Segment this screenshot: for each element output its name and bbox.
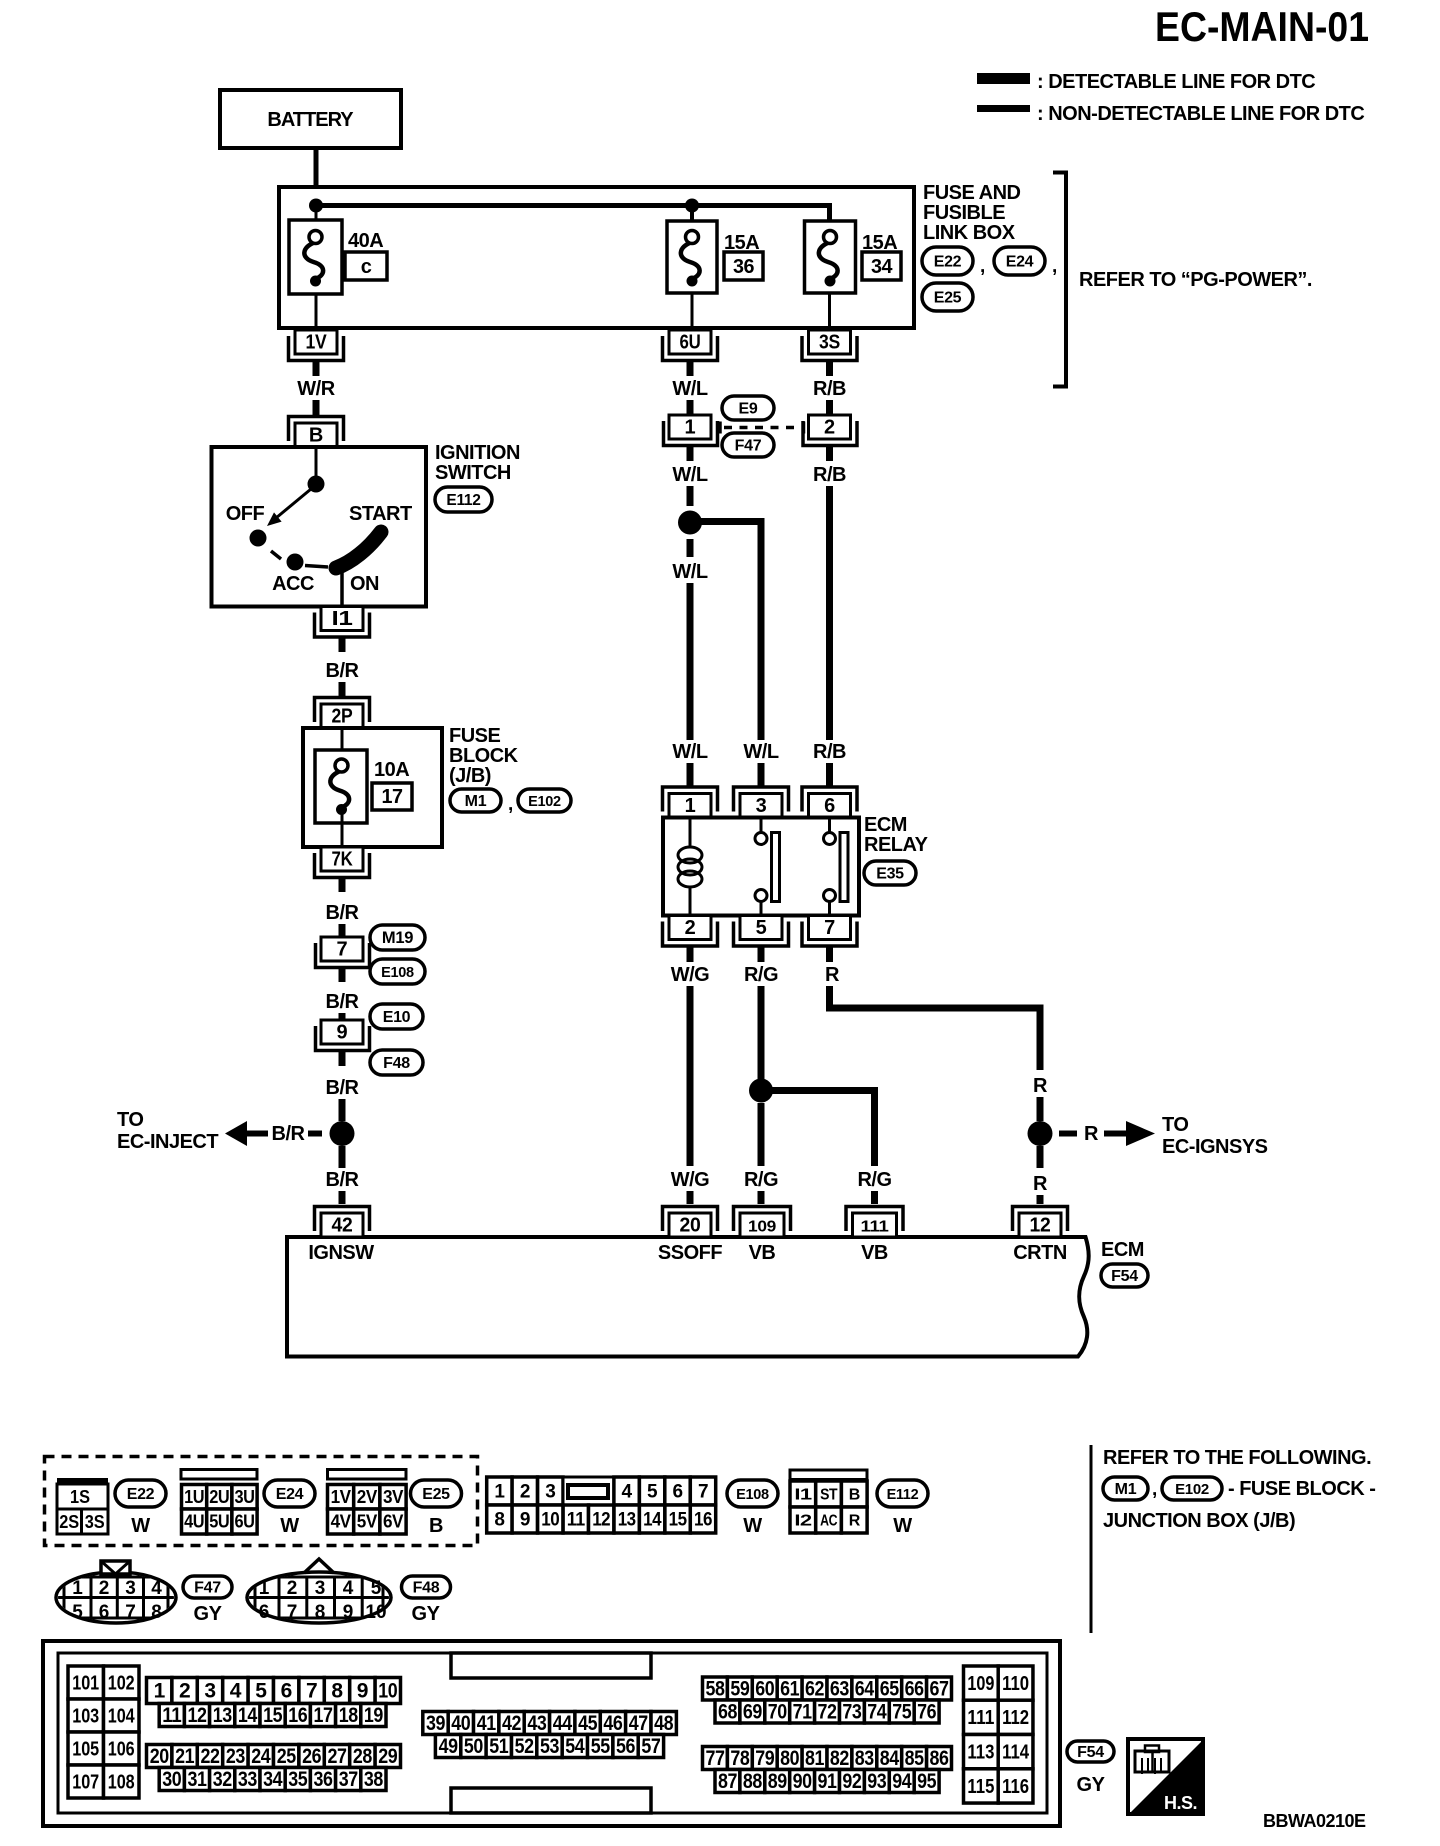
svg-text:ON: ON bbox=[350, 573, 379, 595]
svg-text:B/R: B/R bbox=[326, 991, 360, 1013]
svg-text:72: 72 bbox=[818, 1701, 837, 1724]
branch wire to relay pin 3 bbox=[696, 522, 761, 741]
svg-text:20: 20 bbox=[680, 1215, 701, 1237]
svg-text:62: 62 bbox=[805, 1678, 824, 1701]
svg-text:82: 82 bbox=[830, 1747, 849, 1770]
svg-text:B: B bbox=[849, 1487, 860, 1504]
connector face E112 bbox=[790, 1470, 867, 1480]
svg-text:57: 57 bbox=[641, 1735, 660, 1758]
junction W/L branch bbox=[678, 511, 702, 535]
svg-text:49: 49 bbox=[439, 1735, 458, 1758]
wire W/L to connector 1 bbox=[687, 400, 694, 415]
svg-text:55: 55 bbox=[591, 1735, 611, 1758]
svg-text:W/L: W/L bbox=[672, 378, 707, 400]
fuse and fusible link box outline bbox=[279, 187, 914, 328]
branch wire R/G to terminal 111 bbox=[767, 1091, 875, 1167]
svg-text:40: 40 bbox=[451, 1712, 470, 1735]
connector terminal 7K bbox=[315, 847, 370, 878]
svg-text:6: 6 bbox=[672, 1482, 682, 1503]
wire R/G below junction bbox=[758, 1103, 765, 1166]
svg-text:E24: E24 bbox=[276, 1486, 304, 1503]
svg-text:E112: E112 bbox=[887, 1487, 919, 1503]
svg-text:- FUSE BLOCK -: - FUSE BLOCK - bbox=[1228, 1478, 1375, 1500]
svg-text:86: 86 bbox=[930, 1747, 949, 1770]
svg-text:W: W bbox=[280, 1515, 299, 1537]
svg-text:26: 26 bbox=[302, 1745, 321, 1768]
svg-text:91: 91 bbox=[818, 1770, 838, 1793]
relay contact pins 3-5 bbox=[755, 818, 780, 916]
svg-text:R/G: R/G bbox=[857, 1169, 891, 1191]
svg-text:44: 44 bbox=[553, 1712, 573, 1735]
value box 36 bbox=[724, 252, 763, 280]
wire 2P to fuse 10A bbox=[341, 728, 344, 765]
connector face E25 bbox=[328, 1470, 407, 1480]
svg-text:71: 71 bbox=[793, 1701, 813, 1724]
svg-text:103: 103 bbox=[72, 1706, 99, 1728]
wire W/L to relay pin 1 bbox=[687, 583, 694, 740]
svg-text:27: 27 bbox=[328, 1745, 347, 1768]
svg-text:1U: 1U bbox=[184, 1487, 204, 1507]
svg-text:3V: 3V bbox=[383, 1487, 403, 1507]
connector terminal B (ignition switch) bbox=[289, 417, 344, 448]
svg-text:52: 52 bbox=[515, 1735, 534, 1758]
svg-text:105: 105 bbox=[72, 1739, 99, 1761]
svg-text:9: 9 bbox=[343, 1602, 354, 1623]
ECM pins 58-67 bbox=[703, 1677, 952, 1701]
value box 17 bbox=[372, 783, 412, 810]
wire B/R to connector 9 bbox=[339, 1013, 346, 1020]
svg-text:VB: VB bbox=[749, 1242, 776, 1264]
svg-text:53: 53 bbox=[540, 1735, 559, 1758]
svg-text:29: 29 bbox=[378, 1745, 397, 1768]
svg-text:10: 10 bbox=[541, 1510, 559, 1531]
svg-text:47: 47 bbox=[629, 1712, 648, 1735]
ECM terminal 109 bbox=[734, 1207, 791, 1238]
wire stub below 1V bbox=[313, 362, 320, 377]
svg-text:3: 3 bbox=[125, 1578, 136, 1599]
wire B/R to connector 2P bbox=[339, 682, 346, 697]
ECM box bbox=[287, 1237, 1089, 1357]
ECM pins 87-95 bbox=[715, 1770, 939, 1794]
wire R/G down bbox=[758, 986, 765, 1080]
wire W/G to terminal 20 bbox=[687, 1191, 694, 1204]
connector ref E35 bbox=[864, 861, 916, 885]
svg-text:1S: 1S bbox=[70, 1487, 90, 1507]
svg-text:36: 36 bbox=[314, 1768, 333, 1791]
wire R jog right bbox=[830, 986, 1041, 1070]
svg-text:87: 87 bbox=[718, 1770, 737, 1793]
wire stub below 7K bbox=[339, 879, 346, 893]
svg-text:E22: E22 bbox=[127, 1486, 155, 1503]
wire stub below connector 9 bbox=[339, 1052, 346, 1067]
svg-text:111: 111 bbox=[967, 1707, 994, 1729]
svg-text:42: 42 bbox=[502, 1712, 521, 1735]
svg-text:109: 109 bbox=[748, 1219, 776, 1236]
ECM pins 1-10 bbox=[147, 1678, 401, 1704]
svg-text:24: 24 bbox=[251, 1745, 271, 1768]
svg-text:6V: 6V bbox=[383, 1512, 403, 1532]
svg-text:18: 18 bbox=[339, 1704, 359, 1727]
svg-text:1: 1 bbox=[259, 1578, 270, 1599]
svg-text:73: 73 bbox=[842, 1701, 861, 1724]
svg-text:107: 107 bbox=[72, 1772, 99, 1794]
svg-text:START: START bbox=[349, 503, 412, 525]
svg-text:9: 9 bbox=[357, 1680, 368, 1703]
svg-text:R/B: R/B bbox=[813, 464, 846, 486]
svg-text:14: 14 bbox=[238, 1704, 258, 1727]
svg-text:9: 9 bbox=[336, 1022, 347, 1044]
label FUSE BLOCK (J/B) bbox=[449, 725, 519, 787]
dashed arc OFF to ACC bbox=[271, 551, 281, 559]
battery box bbox=[220, 90, 401, 148]
ECM pins 39-48 bbox=[423, 1712, 677, 1736]
wire stub below relay pin 7 bbox=[826, 947, 833, 962]
svg-text:3U: 3U bbox=[235, 1487, 255, 1507]
svg-text:W/L: W/L bbox=[672, 464, 707, 486]
svg-text:64: 64 bbox=[855, 1678, 875, 1701]
svg-text:33: 33 bbox=[238, 1768, 257, 1791]
top alignment notch bbox=[451, 1653, 651, 1678]
connector terminal 2P bbox=[315, 698, 370, 729]
svg-text:F54: F54 bbox=[1077, 1744, 1104, 1761]
connector ref E25 bbox=[922, 283, 973, 311]
wire stub above relay pin 1 bbox=[687, 763, 694, 787]
connector 1 (E9/F47) bbox=[664, 415, 718, 446]
svg-text:7: 7 bbox=[125, 1602, 136, 1623]
fusible link 40A box bbox=[289, 220, 342, 294]
svg-text:IGNSW: IGNSW bbox=[308, 1242, 374, 1264]
svg-text:5: 5 bbox=[255, 1680, 267, 1703]
svg-text:EC-IGNSYS: EC-IGNSYS bbox=[1162, 1136, 1268, 1158]
svg-text:11: 11 bbox=[567, 1510, 586, 1531]
svg-text:37: 37 bbox=[339, 1768, 358, 1791]
wire through fusible link 40A bbox=[315, 208, 318, 332]
svg-text:8: 8 bbox=[151, 1602, 162, 1623]
svg-text:IGNITION: IGNITION bbox=[435, 442, 520, 464]
svg-text:13: 13 bbox=[213, 1704, 232, 1727]
connector ref M19 bbox=[370, 925, 425, 950]
ECM connector pinout inner box bbox=[58, 1653, 1047, 1813]
svg-text:B: B bbox=[309, 425, 323, 447]
ECM terminal 20 bbox=[663, 1207, 718, 1238]
svg-text:51: 51 bbox=[489, 1735, 509, 1758]
connector 2 (E9/F47) bbox=[803, 415, 857, 446]
svg-text:B/R: B/R bbox=[272, 1123, 306, 1145]
relay terminal 3 bbox=[734, 787, 789, 818]
svg-text:3: 3 bbox=[756, 795, 767, 817]
svg-text:OFF: OFF bbox=[226, 503, 265, 525]
svg-text:2U: 2U bbox=[209, 1487, 229, 1507]
svg-text:4U: 4U bbox=[184, 1512, 204, 1532]
svg-text:109: 109 bbox=[967, 1673, 994, 1695]
fusible link 40A symbol bbox=[304, 231, 323, 287]
switch pivot contact bbox=[308, 476, 325, 493]
svg-text:6: 6 bbox=[824, 795, 835, 817]
ECM pins 30-38 bbox=[159, 1768, 386, 1792]
svg-text:12: 12 bbox=[1030, 1215, 1051, 1237]
wire battery to fuse box bus bbox=[314, 148, 319, 207]
svg-text:GY: GY bbox=[1077, 1774, 1106, 1796]
wire R/B to connector 2 bbox=[826, 400, 833, 415]
svg-text:48: 48 bbox=[654, 1712, 674, 1735]
svg-text:80: 80 bbox=[780, 1747, 799, 1770]
svg-text:90: 90 bbox=[793, 1770, 812, 1793]
switch rotor arrow to OFF bbox=[267, 489, 311, 526]
arrow to EC-INJECT bbox=[225, 1121, 268, 1146]
junction bus at fuse 36 tap bbox=[685, 199, 699, 213]
svg-text:54: 54 bbox=[565, 1735, 585, 1758]
svg-text:68: 68 bbox=[718, 1701, 738, 1724]
connector ref E22 (face) bbox=[115, 1480, 166, 1507]
H.S. logo bbox=[1128, 1739, 1203, 1814]
svg-text:: NON-DETECTABLE LINE FOR DTC: : NON-DETECTABLE LINE FOR DTC bbox=[1037, 103, 1364, 125]
junction R/G branch bbox=[749, 1079, 773, 1103]
svg-text:VB: VB bbox=[861, 1242, 888, 1264]
svg-text:: DETECTABLE LINE FOR DTC: : DETECTABLE LINE FOR DTC bbox=[1037, 71, 1315, 93]
wire stub below relay pin 5 bbox=[758, 947, 765, 962]
svg-text:E22: E22 bbox=[934, 254, 962, 271]
svg-text:JUNCTION BOX (J/B): JUNCTION BOX (J/B) bbox=[1103, 1510, 1295, 1532]
wire through fuse 34 bbox=[828, 222, 831, 332]
connector ref F54 (pinout) bbox=[1067, 1741, 1114, 1762]
svg-text:3S: 3S bbox=[819, 332, 840, 354]
wire fuse 10A to 7K bbox=[341, 812, 344, 847]
ECM pins 101-108 bbox=[68, 1666, 139, 1798]
wire stub below relay pin 2 bbox=[687, 947, 694, 962]
ECM pins 109-116 bbox=[964, 1666, 1033, 1803]
connector ref M1 bbox=[450, 789, 501, 812]
svg-text:SWITCH: SWITCH bbox=[435, 462, 511, 484]
svg-text:7: 7 bbox=[287, 1602, 298, 1623]
svg-text:8: 8 bbox=[315, 1602, 326, 1623]
svg-text:REFER TO THE FOLLOWING.: REFER TO THE FOLLOWING. bbox=[1103, 1447, 1371, 1469]
ECM pins 11-19 bbox=[159, 1704, 386, 1728]
svg-text:78: 78 bbox=[730, 1747, 750, 1770]
connector ref E108 bbox=[370, 959, 425, 984]
svg-text:4: 4 bbox=[343, 1578, 354, 1599]
svg-text:E108: E108 bbox=[381, 965, 414, 981]
connector ref E22 bbox=[922, 247, 973, 275]
wire R to terminal 12 bbox=[1037, 1195, 1044, 1204]
wire stub below 3S bbox=[826, 362, 833, 377]
svg-text:108: 108 bbox=[108, 1772, 135, 1794]
wire R/B to relay pin 6 bbox=[826, 486, 833, 740]
svg-text:SSOFF: SSOFF bbox=[658, 1242, 722, 1264]
svg-text:FUSIBLE: FUSIBLE bbox=[923, 202, 1005, 224]
svg-text:7: 7 bbox=[336, 939, 347, 961]
value box 34 bbox=[862, 252, 901, 280]
svg-text:84: 84 bbox=[880, 1747, 900, 1770]
svg-text:75: 75 bbox=[892, 1701, 912, 1724]
svg-text:70: 70 bbox=[768, 1701, 787, 1724]
svg-text:2: 2 bbox=[520, 1482, 530, 1503]
svg-text:5: 5 bbox=[647, 1482, 658, 1503]
connector face E22 bbox=[57, 1478, 108, 1534]
connector ref E108 (face) bbox=[727, 1480, 778, 1507]
svg-text:REFER TO “PG-POWER”.: REFER TO “PG-POWER”. bbox=[1079, 269, 1312, 291]
svg-text:M1: M1 bbox=[1115, 1481, 1137, 1498]
fuse block (J/B) box bbox=[303, 728, 442, 847]
svg-text:94: 94 bbox=[892, 1770, 912, 1793]
svg-text:31: 31 bbox=[188, 1768, 208, 1791]
svg-text:BBWA0210E: BBWA0210E bbox=[1263, 1811, 1366, 1831]
connector 7 (M19/E108) bbox=[316, 937, 370, 968]
fuse 15A 34 box bbox=[805, 221, 856, 293]
wire R to junction bbox=[1037, 1097, 1044, 1121]
svg-text:E25: E25 bbox=[422, 1486, 450, 1503]
svg-text:R/G: R/G bbox=[744, 1169, 778, 1191]
svg-text:3: 3 bbox=[204, 1680, 215, 1703]
svg-text:34: 34 bbox=[263, 1768, 283, 1791]
connector terminal 3S bbox=[802, 330, 857, 361]
svg-text:20: 20 bbox=[150, 1745, 169, 1768]
svg-text:F54: F54 bbox=[1111, 1268, 1138, 1285]
dashed arc ACC to ON bbox=[305, 566, 328, 568]
connector face E108 16-pin bbox=[487, 1477, 563, 1505]
svg-text:3S: 3S bbox=[85, 1512, 105, 1532]
svg-text:104: 104 bbox=[108, 1706, 136, 1728]
relay terminal 7 bbox=[802, 916, 857, 947]
svg-text:EC-INJECT: EC-INJECT bbox=[117, 1131, 218, 1153]
svg-text:ECM: ECM bbox=[1101, 1239, 1144, 1261]
svg-text:13: 13 bbox=[618, 1510, 636, 1531]
connector ref M1 (note) bbox=[1103, 1477, 1148, 1500]
wire B/R to connector 7 bbox=[339, 924, 346, 937]
svg-text:111: 111 bbox=[861, 1219, 889, 1236]
svg-text:R: R bbox=[825, 964, 840, 986]
svg-text:,: , bbox=[1152, 1479, 1157, 1500]
svg-text:61: 61 bbox=[780, 1678, 800, 1701]
connector ref F54 (ECM) bbox=[1101, 1264, 1148, 1287]
label TO EC-IGNSYS bbox=[1162, 1114, 1268, 1158]
svg-text:10: 10 bbox=[365, 1602, 386, 1623]
wire W/L to junction bbox=[687, 486, 694, 506]
legend non-detectable line bar bbox=[977, 105, 1030, 112]
switch internal wire ON to I1 bbox=[340, 569, 344, 607]
connector ref E25 (face) bbox=[411, 1480, 462, 1507]
switch ON contact swoosh bbox=[336, 532, 381, 568]
svg-text:74: 74 bbox=[867, 1701, 887, 1724]
svg-text:2: 2 bbox=[99, 1578, 110, 1599]
svg-text:F48: F48 bbox=[413, 1580, 440, 1597]
svg-text:B/R: B/R bbox=[326, 1169, 360, 1191]
svg-text:66: 66 bbox=[905, 1678, 924, 1701]
svg-text:EC-MAIN-01: EC-MAIN-01 bbox=[1155, 3, 1369, 50]
wire below junction bbox=[339, 1146, 346, 1168]
svg-text:R: R bbox=[1033, 1075, 1048, 1097]
connector ref F47 bbox=[722, 433, 774, 457]
svg-text:ACC: ACC bbox=[272, 573, 314, 595]
connector terminal I1 bbox=[315, 607, 370, 638]
svg-text:E102: E102 bbox=[1175, 1481, 1209, 1498]
svg-text:22: 22 bbox=[201, 1745, 220, 1768]
svg-text:15: 15 bbox=[669, 1510, 688, 1531]
svg-text:89: 89 bbox=[768, 1770, 787, 1793]
svg-text:,: , bbox=[508, 794, 513, 815]
svg-text:I1: I1 bbox=[332, 608, 353, 630]
svg-text:112: 112 bbox=[1002, 1707, 1029, 1729]
svg-text:39: 39 bbox=[426, 1712, 445, 1735]
key slot bbox=[563, 1477, 614, 1505]
branch dash to R label bbox=[1059, 1131, 1077, 1137]
relay coil bbox=[678, 818, 702, 916]
svg-text:R/G: R/G bbox=[744, 964, 778, 986]
svg-text:11: 11 bbox=[162, 1704, 182, 1727]
svg-text:15: 15 bbox=[263, 1704, 283, 1727]
connector ref F47 (face) bbox=[183, 1576, 232, 1598]
connector ref E102 (note) bbox=[1162, 1477, 1222, 1500]
svg-text:65: 65 bbox=[880, 1678, 900, 1701]
connector ref E10 bbox=[370, 1004, 423, 1029]
svg-text:7: 7 bbox=[824, 917, 835, 939]
wire stub below connector 2 bbox=[826, 447, 833, 462]
svg-text:CRTN: CRTN bbox=[1013, 1242, 1067, 1264]
svg-text:113: 113 bbox=[967, 1742, 994, 1764]
connector face F47 bbox=[56, 1561, 176, 1623]
svg-text:116: 116 bbox=[1002, 1776, 1029, 1798]
svg-text:1: 1 bbox=[72, 1578, 83, 1599]
svg-text:E9: E9 bbox=[739, 401, 758, 418]
svg-text:95: 95 bbox=[917, 1770, 937, 1793]
ignition switch box bbox=[212, 447, 427, 607]
wire stub above relay pin 3 bbox=[758, 763, 765, 787]
svg-text:36: 36 bbox=[733, 256, 754, 278]
svg-text:2V: 2V bbox=[357, 1487, 377, 1507]
wire stub below connector 1 bbox=[687, 447, 694, 462]
svg-text:R/B: R/B bbox=[813, 378, 846, 400]
svg-text:E35: E35 bbox=[876, 866, 904, 883]
svg-text:12: 12 bbox=[592, 1510, 610, 1531]
svg-text:R: R bbox=[849, 1513, 861, 1530]
ECM pins 20-29 bbox=[147, 1745, 401, 1769]
svg-text:4: 4 bbox=[151, 1578, 162, 1599]
svg-text:79: 79 bbox=[755, 1747, 774, 1770]
svg-text:M19: M19 bbox=[382, 929, 413, 947]
svg-text:c: c bbox=[361, 256, 372, 278]
svg-text:59: 59 bbox=[730, 1678, 749, 1701]
svg-text:E24: E24 bbox=[1006, 254, 1034, 271]
svg-text:3: 3 bbox=[545, 1482, 555, 1503]
svg-text:W/R: W/R bbox=[297, 378, 335, 400]
relay terminal 5 bbox=[734, 916, 789, 947]
connector terminal 1V bbox=[289, 330, 344, 361]
wire stub above relay pin 6 bbox=[826, 763, 833, 787]
svg-text:I2: I2 bbox=[794, 1513, 812, 1530]
svg-text:101: 101 bbox=[72, 1673, 99, 1695]
svg-text:5V: 5V bbox=[357, 1512, 377, 1532]
svg-text:BLOCK: BLOCK bbox=[449, 745, 519, 767]
svg-text:2P: 2P bbox=[332, 706, 353, 728]
svg-text:E108: E108 bbox=[736, 1487, 769, 1503]
svg-text:114: 114 bbox=[1002, 1742, 1030, 1764]
svg-text:E112: E112 bbox=[446, 492, 480, 509]
label FUSE AND FUSIBLE LINK BOX bbox=[923, 182, 1021, 244]
svg-text:2S: 2S bbox=[59, 1512, 79, 1532]
svg-text:106: 106 bbox=[108, 1739, 135, 1761]
label TO EC-INJECT bbox=[117, 1109, 218, 1153]
svg-text:TO: TO bbox=[1162, 1114, 1188, 1136]
svg-text:6U: 6U bbox=[680, 332, 701, 354]
bottom alignment notch bbox=[451, 1788, 651, 1813]
connector ref F48 bbox=[370, 1050, 423, 1075]
svg-text:110: 110 bbox=[1002, 1673, 1029, 1695]
svg-text:W: W bbox=[893, 1515, 912, 1537]
label IGNITION SWITCH bbox=[435, 442, 520, 484]
svg-text:7: 7 bbox=[306, 1680, 317, 1703]
bus wire inside fuse box bbox=[316, 206, 830, 223]
svg-text:ST: ST bbox=[820, 1487, 838, 1504]
svg-text:2: 2 bbox=[287, 1578, 298, 1599]
